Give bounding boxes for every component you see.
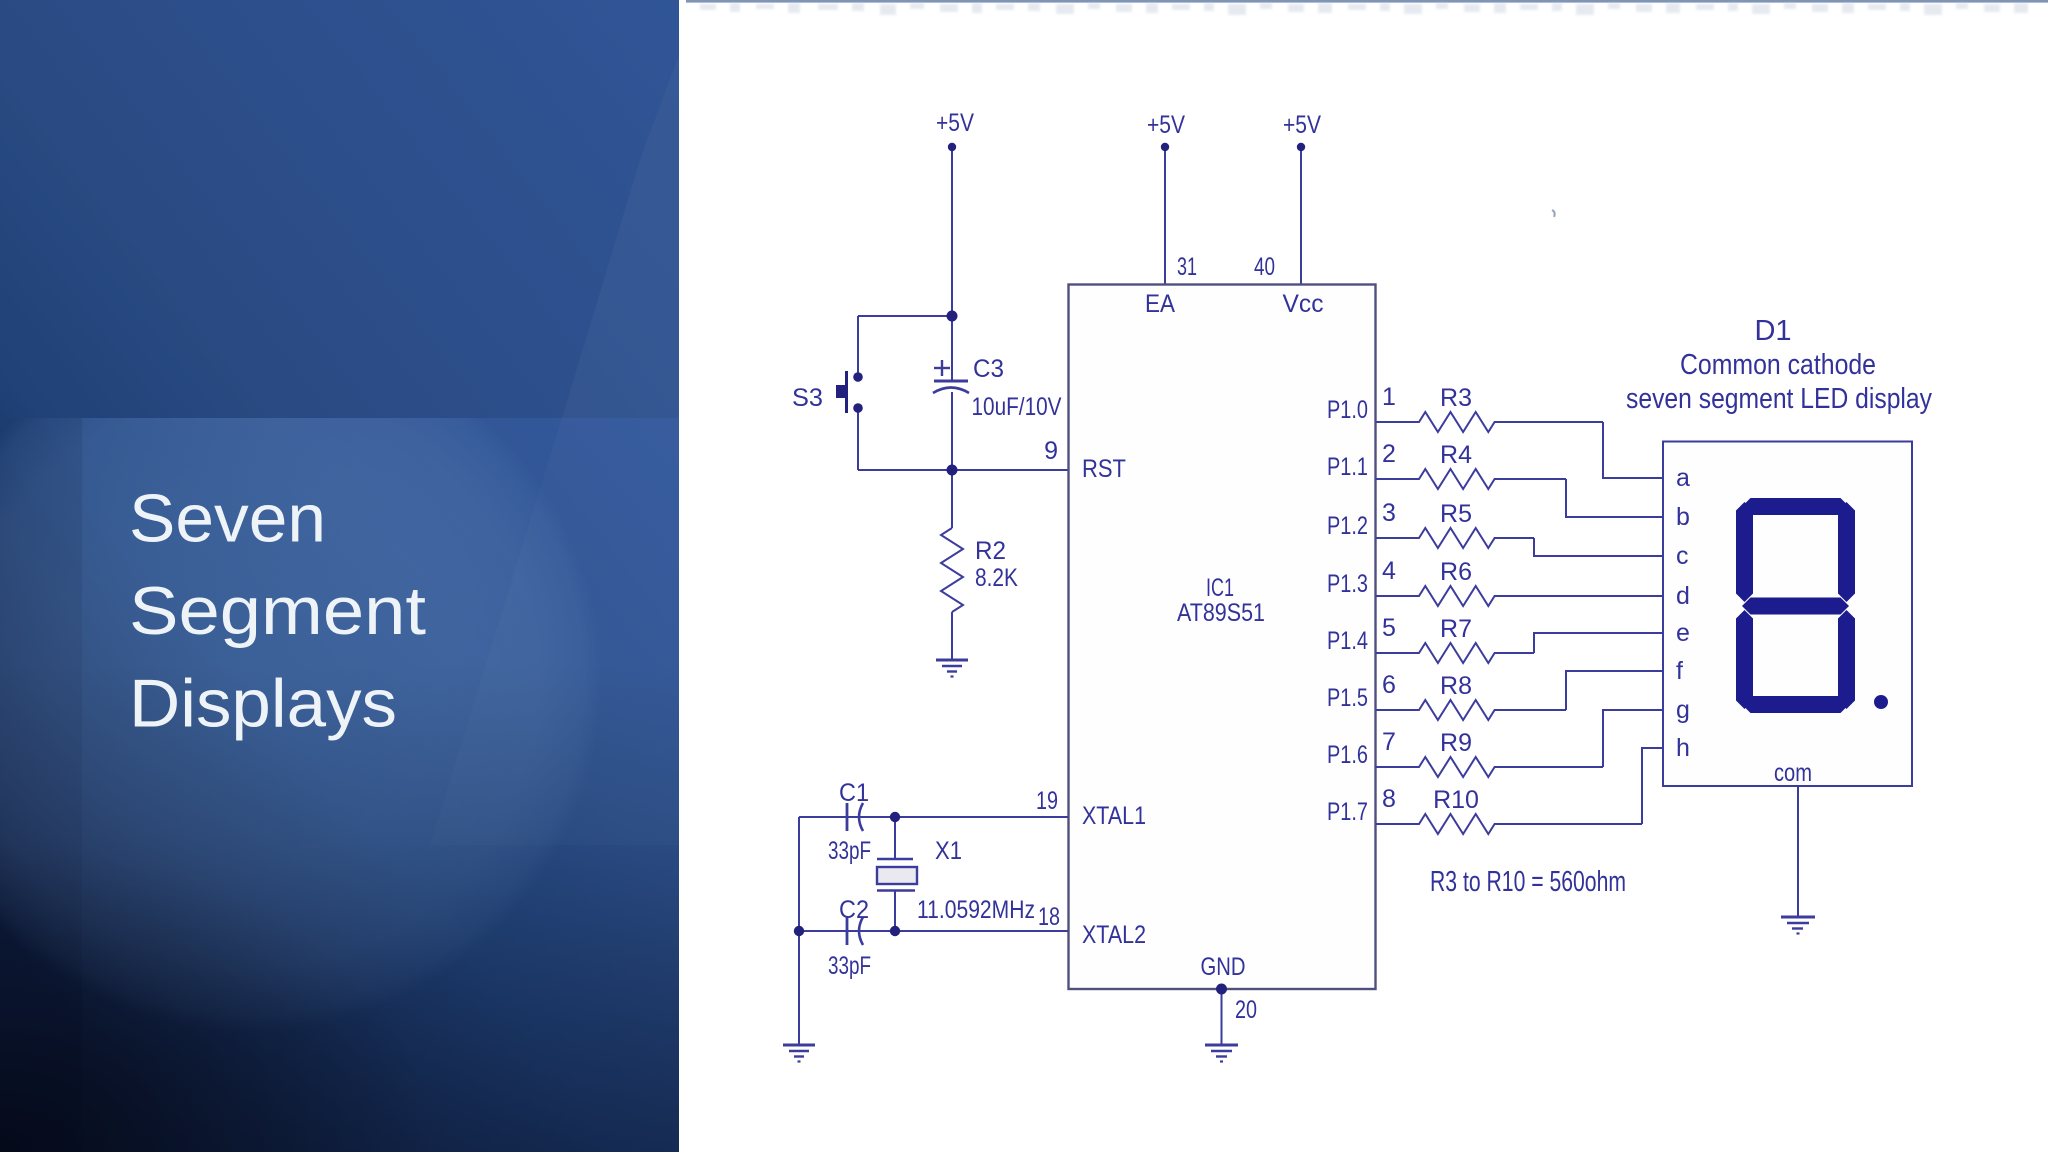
wire S3 lower lead [857, 412, 859, 470]
wire +5V rail 1 vertical [951, 147, 953, 316]
wire crystal top lead [894, 817, 896, 858]
svg-text:com: com [1774, 759, 1812, 787]
wire jog to segment h [1642, 748, 1663, 824]
wire C3 bottom lead [951, 392, 953, 470]
svg-text:f: f [1676, 657, 1683, 685]
svg-text:R2: R2 [975, 537, 1006, 565]
ground below left rail [783, 1045, 815, 1062]
wire C3 top lead [951, 316, 953, 380]
svg-text:C1: C1 [839, 779, 869, 807]
crystal X1 body [877, 859, 917, 891]
svg-text:9: 9 [1044, 437, 1058, 465]
ground below display [1781, 917, 1815, 934]
svg-text:R3 to R10 = 560ohm: R3 to R10 = 560ohm [1430, 866, 1626, 898]
slide title text [129, 481, 426, 742]
svg-text:7: 7 [1382, 728, 1396, 756]
node dot +5V rail 2 top [1161, 143, 1169, 151]
wire S3 top horizontal [858, 315, 952, 317]
segment F top-left [1736, 502, 1753, 602]
svg-text:IC1: IC1 [1206, 574, 1234, 602]
svg-text:19: 19 [1036, 787, 1058, 815]
svg-text:Vcc: Vcc [1283, 290, 1324, 318]
svg-text:C2: C2 [839, 896, 869, 924]
svg-text:GND: GND [1201, 953, 1246, 981]
svg-text:P1.7: P1.7 [1327, 798, 1368, 826]
wire com to ground [1797, 786, 1799, 916]
segment G middle [1742, 598, 1849, 615]
svg-text:P1.1: P1.1 [1327, 453, 1368, 481]
svg-text:XTAL2: XTAL2 [1082, 921, 1146, 949]
svg-text:R4: R4 [1440, 441, 1472, 469]
wire P1.2 lead and resistor R5 [1376, 528, 1534, 548]
svg-text:d: d [1676, 582, 1690, 610]
wire jog to segment b [1566, 479, 1663, 517]
wire GND pin drop [1221, 989, 1223, 1044]
svg-text:C3: C3 [973, 355, 1004, 383]
node dot RST junction [947, 465, 958, 476]
segment C bottom-right [1838, 610, 1855, 709]
display D1 box [1663, 442, 1912, 787]
svg-text:R9: R9 [1440, 729, 1472, 757]
wire XTAL2 horizontal [799, 930, 1068, 932]
capacitor C1 symbol [847, 803, 863, 831]
wire jog to segment e [1534, 633, 1663, 653]
left title panel background [0, 0, 679, 1152]
svg-text:11.0592MHz: 11.0592MHz [917, 896, 1035, 924]
wire jog to segment g [1603, 710, 1663, 767]
svg-text:AT89S51: AT89S51 [1177, 599, 1265, 627]
wire S3 upper lead [857, 316, 859, 373]
svg-text:a: a [1676, 464, 1690, 492]
wire jog to segment a [1603, 422, 1663, 478]
segment E bottom-left [1736, 610, 1753, 709]
node dot +5V rail 3 top [1297, 143, 1305, 151]
svg-text:18: 18 [1038, 903, 1060, 931]
segment D bottom [1742, 696, 1849, 713]
svg-text:P1.2: P1.2 [1327, 512, 1368, 540]
svg-text:R5: R5 [1440, 500, 1472, 528]
wire RST node horizontal [858, 469, 1068, 471]
wire +5V rail 2 vertical (EA) [1164, 147, 1166, 284]
svg-text:8.2K: 8.2K [975, 564, 1018, 592]
svg-text:R7: R7 [1440, 615, 1472, 643]
segment B top-right [1838, 502, 1855, 602]
segment A top [1742, 498, 1849, 515]
wire P1.0 lead and resistor R3 [1376, 412, 1603, 432]
ground below GND pin [1205, 1045, 1238, 1062]
svg-text:P1.6: P1.6 [1327, 741, 1368, 769]
svg-text:+5V: +5V [1283, 111, 1321, 139]
svg-text:P1.5: P1.5 [1327, 684, 1368, 712]
resistor R2 zigzag [941, 528, 963, 612]
wire P1.7 lead and resistor R10 [1376, 814, 1642, 834]
wire jog to segment f [1566, 671, 1663, 710]
svg-text:8: 8 [1382, 785, 1396, 813]
svg-text:6: 6 [1382, 671, 1396, 699]
decimal point dp [1874, 695, 1888, 709]
node dot XTAL1/C1 junction [890, 812, 900, 822]
svg-text:R6: R6 [1440, 558, 1472, 586]
IC U1 body rectangle [1069, 285, 1376, 990]
svg-text:P1.0: P1.0 [1327, 396, 1368, 424]
svg-text:40: 40 [1254, 253, 1275, 281]
stray mark artifact [1552, 210, 1555, 217]
wire crystal bottom lead [894, 891, 896, 931]
svg-text:c: c [1676, 542, 1689, 570]
wire left ground drop [798, 817, 800, 1044]
svg-text:R8: R8 [1440, 672, 1472, 700]
svg-text:20: 20 [1235, 996, 1257, 1024]
svg-text:31: 31 [1177, 253, 1197, 281]
wire +5V rail 3 vertical (Vcc) [1300, 147, 1302, 284]
node dot XTAL2 left junction [794, 926, 804, 936]
node dot XTAL2/C2 junction [890, 926, 900, 936]
svg-text:h: h [1676, 734, 1690, 762]
svg-text:P1.3: P1.3 [1327, 570, 1368, 598]
wire P1.4 lead and resistor R7 [1376, 643, 1534, 663]
svg-text:X1: X1 [935, 837, 962, 865]
svg-text:4: 4 [1382, 557, 1396, 585]
svg-text:+5V: +5V [1147, 111, 1185, 139]
wire P1.3 lead and resistor R6 [1376, 586, 1663, 606]
svg-text:EA: EA [1145, 290, 1175, 318]
svg-text:10uF/10V: 10uF/10V [972, 393, 1062, 421]
svg-text:2: 2 [1382, 440, 1396, 468]
svg-text:XTAL1: XTAL1 [1082, 802, 1146, 830]
wire P1.1 lead and resistor R4 [1376, 469, 1566, 489]
wire XTAL1 horizontal [799, 816, 1068, 818]
node dot junction C3 top [947, 311, 958, 322]
wire R2 bottom lead [951, 612, 953, 659]
svg-text:5: 5 [1382, 614, 1396, 642]
svg-text:P1.4: P1.4 [1327, 627, 1368, 655]
wire P1.5 lead and resistor R8 [1376, 700, 1566, 720]
svg-text:e: e [1676, 619, 1690, 647]
svg-text:g: g [1676, 696, 1690, 724]
svg-text:D1: D1 [1754, 315, 1791, 347]
pushbutton S3 contacts and actuator [836, 371, 863, 413]
svg-text:Common cathode: Common cathode [1680, 349, 1876, 381]
node dot GND pin [1216, 984, 1227, 995]
svg-text:b: b [1676, 503, 1690, 531]
svg-text:3: 3 [1382, 499, 1396, 527]
svg-text:R10: R10 [1433, 786, 1479, 814]
svg-text:+5V: +5V [936, 109, 974, 137]
capacitor C2 symbol [847, 917, 863, 945]
svg-text:seven segment LED display: seven segment LED display [1626, 383, 1932, 415]
wire R2 top lead [951, 470, 953, 528]
svg-text:33pF: 33pF [828, 952, 871, 980]
svg-text:33pF: 33pF [828, 837, 871, 865]
capacitor C3 symbol [933, 360, 969, 393]
svg-text:1: 1 [1382, 383, 1396, 411]
svg-text:R3: R3 [1440, 384, 1472, 412]
node dot +5V rail 1 top [948, 143, 956, 151]
ground below R2 [936, 660, 968, 677]
wire P1.6 lead and resistor R9 [1376, 757, 1603, 777]
svg-text:RST: RST [1082, 455, 1126, 483]
wire jog to segment c [1534, 538, 1663, 556]
svg-text:S3: S3 [792, 384, 823, 412]
